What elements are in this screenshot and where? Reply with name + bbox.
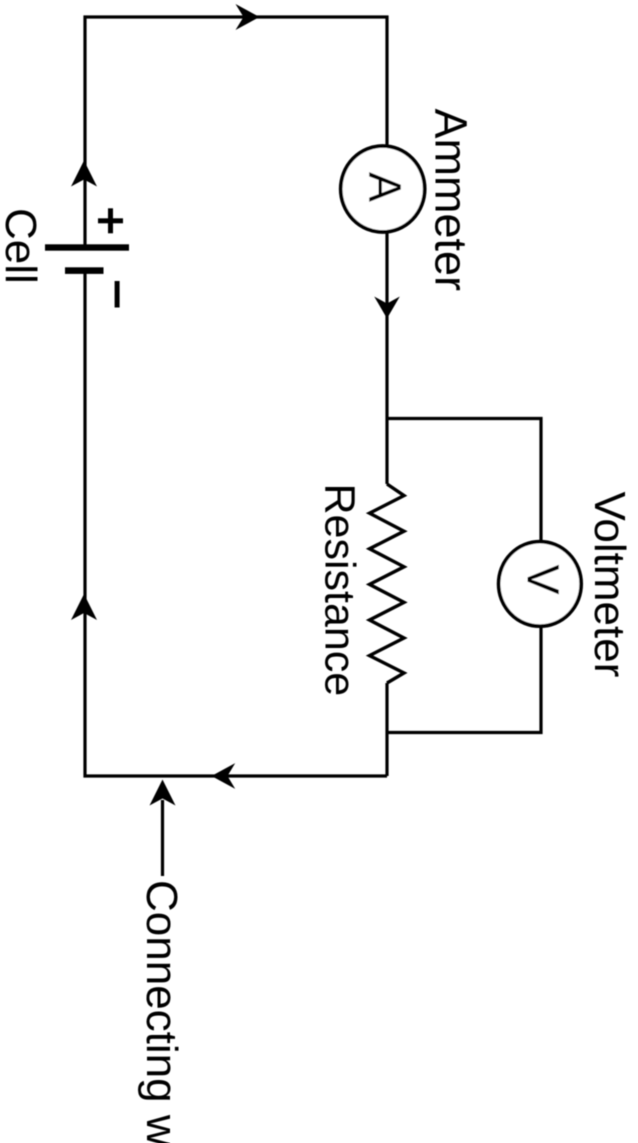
svg-text:Resistance: Resistance [316,484,364,697]
svg-text:Voltmeter: Voltmeter [585,492,634,678]
svg-text:Cell: Cell [0,208,45,284]
svg-text:Connecting wire: Connecting wire [137,880,186,1143]
svg-text:V: V [518,564,569,594]
svg-text:Ammeter: Ammeter [426,109,477,292]
svg-text:A: A [360,172,411,202]
